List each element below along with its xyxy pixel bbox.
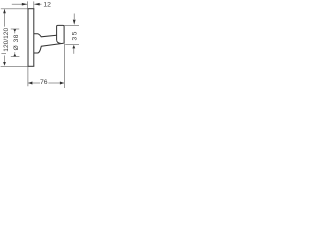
svg-text:120/120: 120/120: [3, 28, 10, 52]
svg-text:12: 12: [43, 2, 51, 9]
svg-text:76: 76: [40, 79, 48, 86]
svg-text:35: 35: [71, 30, 78, 41]
svg-text:Ø 38: Ø 38: [13, 34, 20, 50]
